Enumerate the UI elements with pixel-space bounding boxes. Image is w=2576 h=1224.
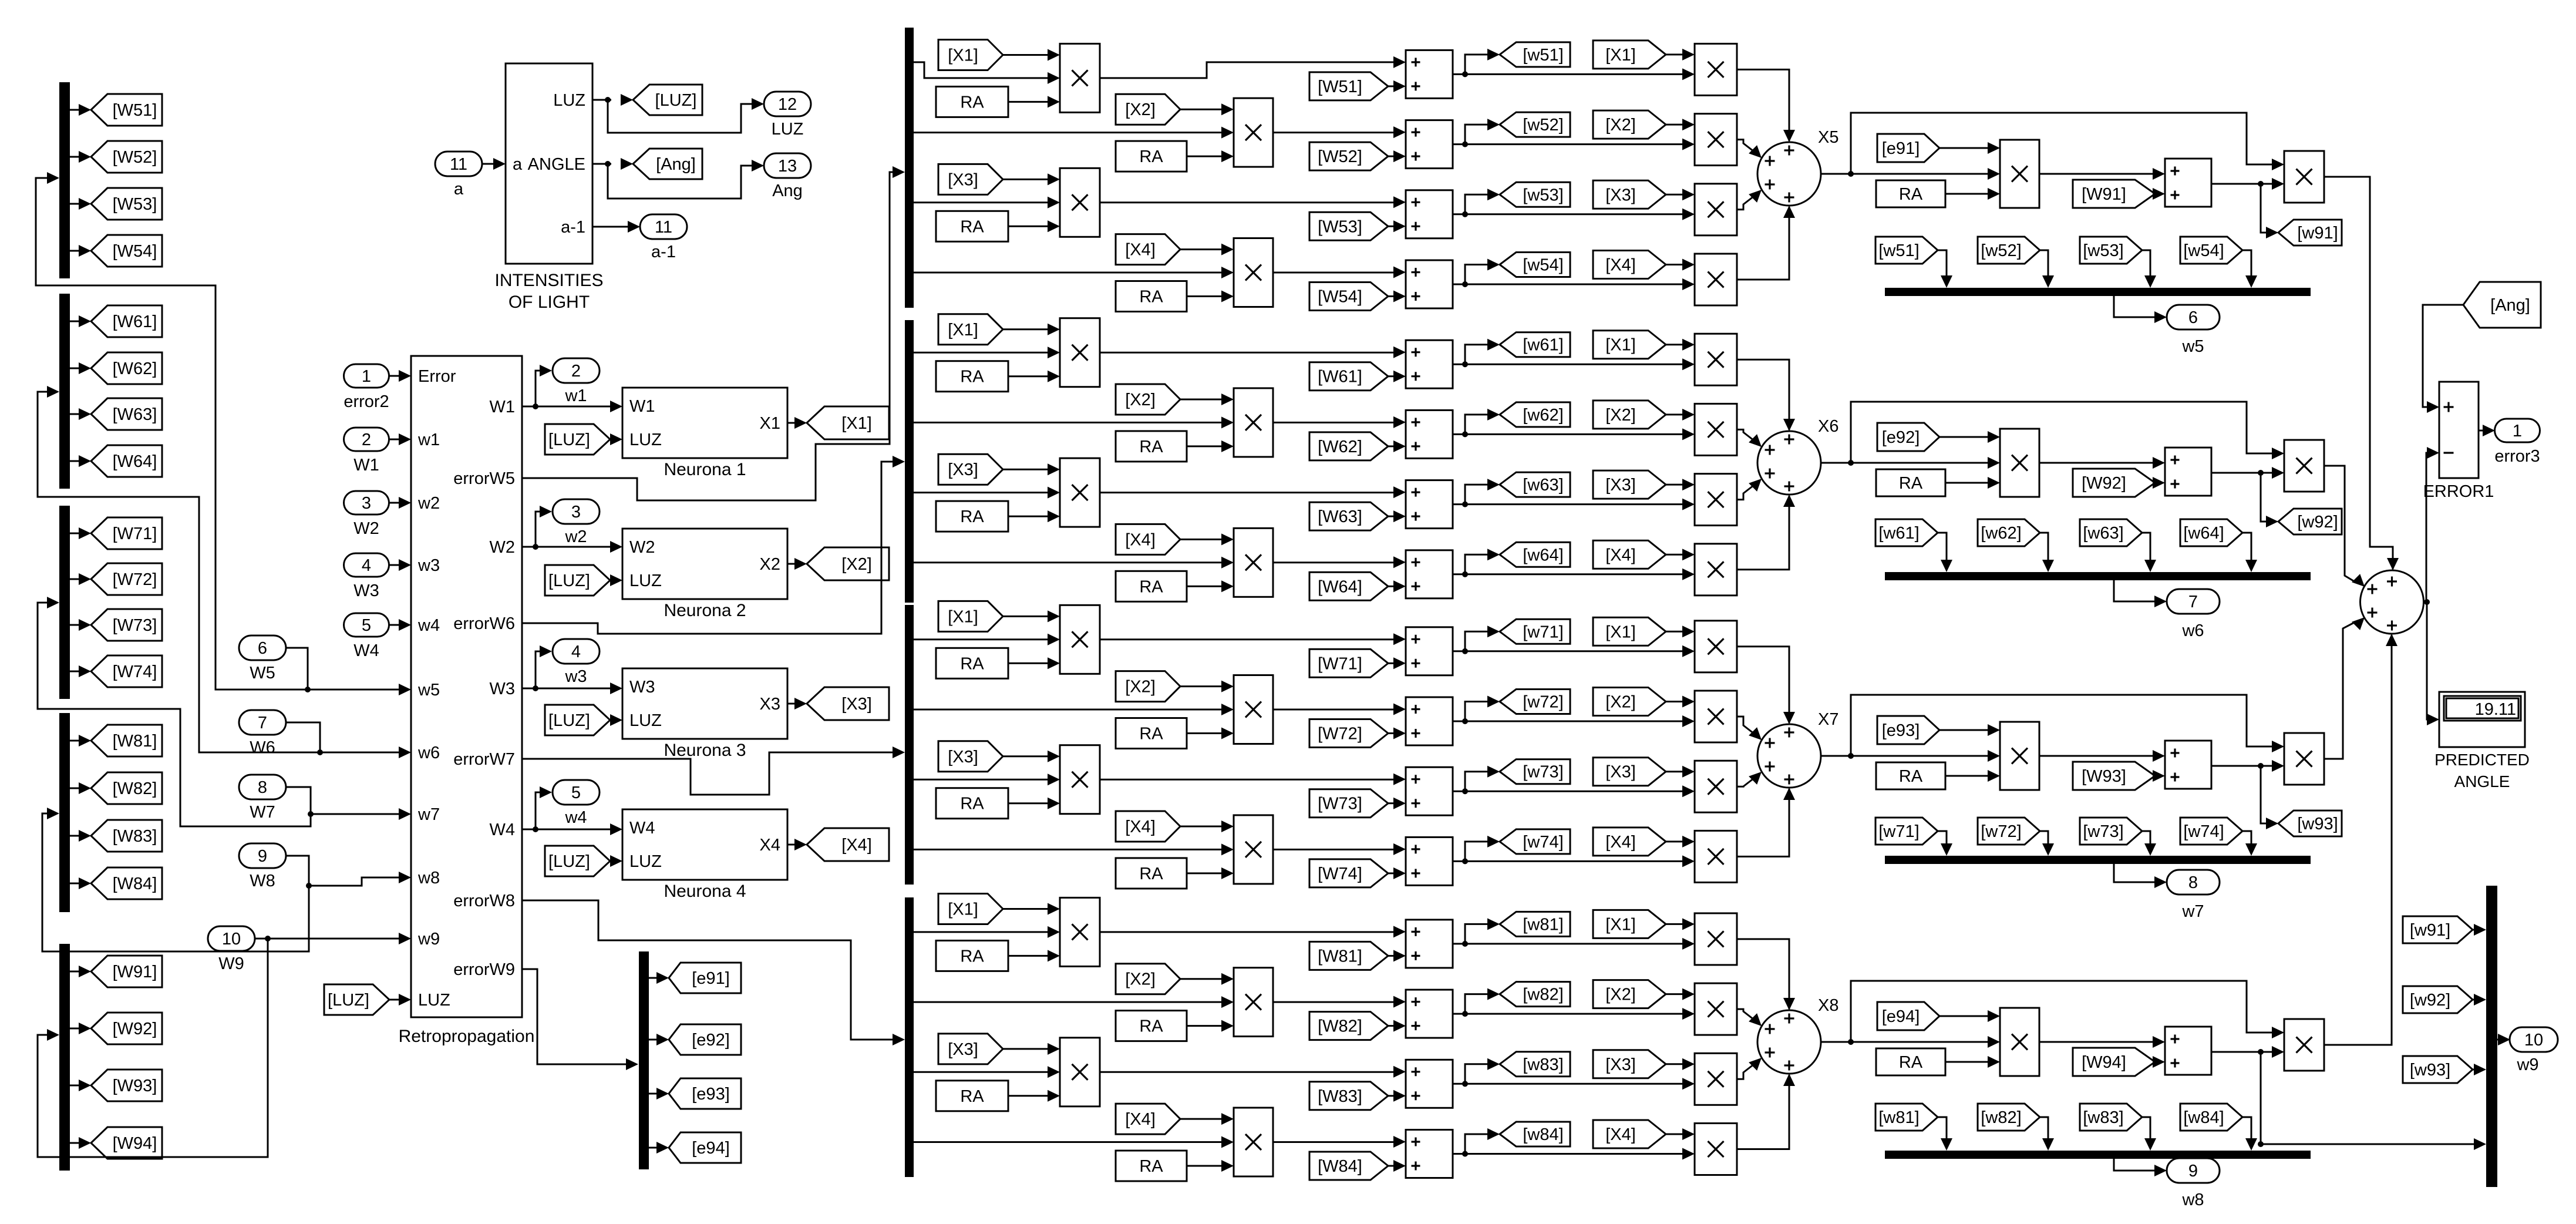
wire [X2] to product g8 r2b bbox=[1666, 988, 1695, 1000]
constant RA g8 r1 bbox=[936, 940, 1008, 971]
product block g7 r4a bbox=[1234, 815, 1273, 884]
wire bar to product g5 r1 bbox=[914, 62, 1060, 84]
wire [X3] to product g6 r3b bbox=[1666, 479, 1695, 490]
mux bar w6 bbox=[1885, 572, 2311, 580]
from tag [W62] bbox=[1309, 432, 1388, 460]
inport 6 W5 bbox=[239, 635, 286, 682]
svg-text:[X2]: [X2] bbox=[841, 555, 872, 574]
sum block g5 r2 bbox=[1406, 120, 1453, 169]
wire errorW5 to bar X5 bbox=[522, 166, 905, 500]
sum block g7 r1 bbox=[1406, 627, 1453, 675]
product block g8 r1a bbox=[1060, 897, 1100, 966]
wire X6 top line bbox=[1851, 402, 2284, 463]
wire RA to product g5 r2 bbox=[1187, 150, 1234, 162]
wire product to sum g5 r1 bbox=[1100, 56, 1406, 78]
wire RA to product e-row X8 bbox=[1945, 1056, 2000, 1068]
wire RA to product e-row X6 bbox=[1945, 477, 2000, 489]
svg-text:[w73]: [w73] bbox=[1523, 763, 1563, 782]
outport 12 LUZ bbox=[764, 92, 811, 139]
wire ERROR1 to outport 1 bbox=[2479, 425, 2495, 436]
svg-text:w3: w3 bbox=[564, 667, 587, 686]
from tag [w73] to mux bbox=[2080, 818, 2142, 845]
constant RA g8 r3 bbox=[936, 1081, 1008, 1111]
svg-text:8: 8 bbox=[2188, 873, 2198, 892]
wire product to sum g6 r3 bbox=[1100, 486, 1406, 498]
arrow sum line into product g8 r4b bbox=[1682, 1148, 1695, 1160]
wire product to sum g6 r4 bbox=[1273, 556, 1406, 568]
wire bar to product g8 r1 bbox=[914, 926, 1060, 938]
svg-text:[w74]: [w74] bbox=[2183, 822, 2224, 841]
goto tag [w62] bbox=[1500, 402, 1570, 427]
svg-text:[w82]: [w82] bbox=[1523, 986, 1563, 1004]
svg-text:RA: RA bbox=[1139, 147, 1163, 166]
inport 3 W2 bbox=[344, 491, 389, 538]
svg-text:[X3]: [X3] bbox=[1605, 763, 1636, 782]
wire [W53] to sum bbox=[1388, 220, 1406, 232]
from tag [X4] g5 r4 bbox=[1116, 234, 1180, 265]
arrow sum line into product g6 r3b bbox=[1682, 499, 1695, 510]
sum block g8 r3 bbox=[1406, 1060, 1453, 1108]
product block e-row X6 bbox=[2000, 429, 2039, 497]
outport 9 w8 bbox=[2167, 1158, 2220, 1209]
wire LUZ to Neurona 3 bbox=[610, 714, 622, 726]
subsystem Retropropagation bbox=[399, 356, 535, 1046]
from tag [X2] g7 r2 bbox=[1116, 671, 1180, 702]
svg-text:12: 12 bbox=[778, 95, 797, 114]
svg-text:[w62]: [w62] bbox=[1523, 406, 1563, 425]
from tag [X3] g6 r3 bbox=[938, 454, 1003, 485]
svg-text:RA: RA bbox=[1139, 1157, 1163, 1176]
wire [w71] drop bbox=[1938, 831, 1952, 856]
svg-text:Error: Error bbox=[418, 367, 456, 386]
svg-text:W3: W3 bbox=[353, 581, 379, 600]
sum block g7 r3 bbox=[1406, 767, 1453, 815]
wire W2 to Retropropagation bbox=[389, 497, 411, 509]
wire X5 product out to adder bbox=[2324, 177, 2399, 570]
sum block e-row X7 bbox=[2165, 741, 2211, 789]
svg-text:[X2]: [X2] bbox=[1605, 986, 1636, 1004]
wire [X4] to product g8 r4b bbox=[1666, 1128, 1695, 1140]
wire W4 retro to Neurona 4 bbox=[522, 823, 622, 835]
wire sum out g8 r1 bbox=[1453, 918, 1683, 947]
demux bar W9x bbox=[59, 944, 70, 1171]
from tag [X4] g8 r4 bbox=[1116, 1104, 1180, 1134]
svg-text:RA: RA bbox=[1139, 438, 1163, 456]
wire product to adder X6 r3 bbox=[1737, 479, 1762, 500]
svg-text:4: 4 bbox=[571, 643, 581, 661]
goto tag [w64] bbox=[1500, 542, 1570, 567]
outport 6 w5 bbox=[2167, 305, 2220, 356]
wire product to adder X8 r4 bbox=[1737, 1074, 1795, 1149]
svg-text:W9: W9 bbox=[218, 954, 244, 973]
svg-text:[w64]: [w64] bbox=[1523, 546, 1563, 564]
wire bar to product g8 r4 bbox=[914, 1136, 1234, 1148]
svg-text:Neurona 2: Neurona 2 bbox=[664, 601, 746, 620]
constant RA e-row X7 bbox=[1876, 762, 1945, 789]
svg-text:[e92]: [e92] bbox=[1882, 428, 1920, 447]
svg-text:[Ang]: [Ang] bbox=[656, 155, 696, 174]
svg-text:X2: X2 bbox=[760, 555, 780, 574]
constant RA g6 r3 bbox=[936, 501, 1008, 532]
wire w9 feedback to demux W9x bbox=[38, 939, 268, 1157]
wire product to sum e-row X6 bbox=[2039, 457, 2165, 469]
wire sum out g7 r3 bbox=[1453, 766, 1683, 795]
outport 4 w3 bbox=[553, 639, 600, 686]
svg-text:[w54]: [w54] bbox=[2183, 241, 2224, 260]
from tag [LUZ] retro bbox=[324, 984, 389, 1015]
wire w7 feedback to demux W7x bbox=[38, 597, 311, 826]
wire product to sum g6 r1 bbox=[1100, 347, 1406, 358]
wire RA to product g8 r4 bbox=[1187, 1160, 1234, 1172]
goto tag [W94] bbox=[91, 1127, 162, 1159]
goto tag [LUZ] top bbox=[633, 85, 702, 115]
product block g7 r2b bbox=[1695, 691, 1737, 742]
wire X4 out bbox=[787, 839, 807, 850]
wire X6 product out to adder bbox=[2324, 466, 2365, 587]
sum block e-row X6 bbox=[2165, 448, 2211, 496]
wire demux to goto [W54] bbox=[70, 245, 91, 257]
svg-text:ERROR1: ERROR1 bbox=[2423, 482, 2494, 501]
from tag [X1] g6 r1b bbox=[1593, 331, 1666, 359]
svg-text:RA: RA bbox=[960, 795, 984, 813]
wire W3 retro to Neurona 3 bbox=[522, 682, 622, 694]
wire ANGLE output bbox=[592, 158, 633, 170]
wire [W93] to sum bbox=[2153, 770, 2165, 782]
svg-text:8: 8 bbox=[258, 778, 267, 797]
svg-text:5: 5 bbox=[571, 784, 581, 802]
wire X8 top line bbox=[1851, 981, 2284, 1042]
inport 5 W4 bbox=[344, 613, 389, 660]
svg-text:RA: RA bbox=[1139, 865, 1163, 883]
svg-text:[W52]: [W52] bbox=[113, 148, 157, 167]
demux bar group X5 bbox=[905, 28, 914, 308]
from tag [W82] bbox=[1309, 1012, 1388, 1040]
wire [X2] to product g5 r2b bbox=[1666, 119, 1695, 130]
product block e-row X6b bbox=[2284, 440, 2324, 492]
svg-text:[W53]: [W53] bbox=[1318, 217, 1362, 236]
wire bar to product g6 r3 bbox=[914, 487, 1060, 499]
svg-text:[w63]: [w63] bbox=[2083, 524, 2123, 543]
goto tag [W62] bbox=[91, 352, 162, 384]
constant RA e-row X8 bbox=[1876, 1048, 1945, 1075]
wire [w81] drop bbox=[1938, 1117, 1952, 1151]
wire [X2] to product g7 r2 bbox=[1180, 681, 1234, 692]
product block g7 r2a bbox=[1234, 675, 1273, 744]
subsystem Neurona 1 bbox=[622, 388, 787, 479]
product block g7 r1b bbox=[1695, 621, 1737, 672]
inport 7 W6 bbox=[239, 710, 286, 757]
svg-text:[X1]: [X1] bbox=[1605, 623, 1636, 641]
svg-text:w1: w1 bbox=[564, 386, 587, 405]
from tag [X2] g6 r2b bbox=[1593, 401, 1666, 429]
svg-text:[X3]: [X3] bbox=[948, 1040, 978, 1059]
from tag [X1] g5 r1b bbox=[1593, 41, 1666, 69]
goto tag [W53] bbox=[91, 188, 162, 220]
goto tag [X3] bbox=[807, 687, 889, 720]
from tag [X1] g8 r1b bbox=[1593, 910, 1666, 938]
from tag [W71] bbox=[1309, 649, 1388, 677]
svg-text:w5: w5 bbox=[417, 681, 440, 700]
svg-text:[W62]: [W62] bbox=[113, 359, 157, 378]
wire bar to product g5 r2 bbox=[914, 127, 1234, 139]
wire [W84] to sum bbox=[1388, 1160, 1406, 1172]
svg-text:[w84]: [w84] bbox=[2183, 1108, 2224, 1127]
svg-text:[X2]: [X2] bbox=[1605, 693, 1636, 712]
wire sum out g6 r3 bbox=[1453, 479, 1683, 507]
demux bar group X7 bbox=[905, 605, 914, 885]
wire demux to goto [W94] bbox=[70, 1137, 91, 1149]
wire product to sum g8 r4 bbox=[1273, 1136, 1406, 1148]
svg-text:LUZ: LUZ bbox=[772, 120, 804, 139]
wire sum out g6 r1 bbox=[1453, 339, 1683, 368]
svg-text:7: 7 bbox=[258, 714, 267, 732]
mux bar w8 bbox=[1885, 1151, 2311, 1159]
from tag [e94] bbox=[1877, 1002, 1939, 1030]
wire RA to product e-row X7 bbox=[1945, 770, 2000, 782]
from tag [w53] to mux bbox=[2080, 237, 2142, 264]
constant RA g5 r1 bbox=[936, 86, 1008, 117]
wire product to adder X8 r2 bbox=[1737, 1009, 1762, 1026]
svg-text:[X3]: [X3] bbox=[841, 695, 872, 714]
wire RA to product g8 r1 bbox=[1008, 950, 1060, 961]
svg-text:a-1: a-1 bbox=[651, 243, 676, 261]
constant RA g6 r2 bbox=[1116, 431, 1187, 462]
svg-text:11: 11 bbox=[450, 155, 467, 174]
from tag [X2] g5 r2 bbox=[1116, 94, 1180, 125]
wire [W73] to sum bbox=[1388, 798, 1406, 809]
svg-text:[e91]: [e91] bbox=[1882, 139, 1920, 158]
subsystem Neurona 4 bbox=[622, 809, 787, 901]
wire mux w9 to outport 10 bbox=[2497, 1034, 2510, 1045]
svg-text:error3: error3 bbox=[2494, 447, 2540, 466]
wire bar to product g7 r1 bbox=[914, 634, 1060, 645]
svg-text:[LUZ]: [LUZ] bbox=[655, 91, 697, 110]
svg-text:[X4]: [X4] bbox=[1125, 1110, 1156, 1129]
svg-text:error2: error2 bbox=[344, 392, 389, 411]
wire product to adder X7 r4 bbox=[1737, 788, 1795, 856]
from tag [w92] right bbox=[2403, 986, 2473, 1013]
goto tag [e92] bbox=[669, 1024, 741, 1055]
from tag [W73] bbox=[1309, 789, 1388, 818]
sum block g8 r4 bbox=[1406, 1130, 1453, 1178]
goto tag [W72] bbox=[91, 563, 162, 595]
svg-text:w4: w4 bbox=[564, 808, 587, 827]
from tag [X1] g6 r1 bbox=[938, 314, 1003, 345]
svg-text:LUZ: LUZ bbox=[629, 852, 662, 871]
wire product to sum g8 r3 bbox=[1100, 1066, 1406, 1078]
wire [w52] drop bbox=[2040, 250, 2054, 288]
goto tag [W91] bbox=[91, 956, 162, 987]
svg-text:[w84]: [w84] bbox=[1523, 1125, 1563, 1144]
product block g8 r3b bbox=[1695, 1053, 1737, 1105]
svg-text:[W73]: [W73] bbox=[1318, 795, 1362, 813]
from tag [LUZ] Neurona 3 bbox=[545, 705, 610, 735]
product block g5 r2a bbox=[1234, 98, 1273, 167]
svg-text:X1: X1 bbox=[760, 414, 780, 433]
demux bar e9x bbox=[639, 951, 649, 1169]
demux bar W5x bbox=[59, 82, 70, 278]
from tag [X3] g7 r3b bbox=[1593, 758, 1666, 786]
wire sum out e-row X5 bbox=[2211, 178, 2284, 190]
wire [X4] to product g8 r4 bbox=[1180, 1113, 1234, 1125]
wire X7 top line bbox=[1851, 695, 2284, 756]
svg-text:w3: w3 bbox=[417, 556, 440, 575]
wire demux to goto [e93] bbox=[649, 1088, 669, 1099]
goto tag [w71] bbox=[1500, 619, 1570, 644]
sum block g8 r2 bbox=[1406, 990, 1453, 1038]
wire W1 to Retropropagation bbox=[389, 433, 411, 445]
svg-text:OF LIGHT: OF LIGHT bbox=[509, 292, 590, 312]
wire RA to product g7 r3 bbox=[1008, 798, 1060, 809]
wire W7 net bbox=[286, 787, 411, 820]
svg-text:[X1]: [X1] bbox=[1605, 915, 1636, 934]
svg-text:[W93]: [W93] bbox=[2082, 767, 2126, 786]
wire [w74] drop bbox=[2242, 831, 2257, 856]
wire X5 top line bbox=[1851, 113, 2284, 174]
svg-text:RA: RA bbox=[960, 507, 984, 526]
goto tag [w82] bbox=[1500, 982, 1570, 1007]
wire [X1] to product g7 r1b bbox=[1666, 626, 1695, 637]
svg-text:[w71]: [w71] bbox=[1523, 623, 1563, 641]
from tag [X3] g6 r3b bbox=[1593, 470, 1666, 499]
wire W2 retro to Neurona 2 bbox=[522, 541, 622, 553]
wire sum out g6 r4 bbox=[1453, 549, 1683, 577]
svg-text:[X2]: [X2] bbox=[1125, 678, 1156, 697]
wire RA to product g7 r1 bbox=[1008, 657, 1060, 669]
goto tag [W74] bbox=[91, 655, 162, 687]
from tag [w82] to mux bbox=[1978, 1104, 2040, 1131]
svg-text:[X1]: [X1] bbox=[948, 321, 978, 339]
svg-text:[X3]: [X3] bbox=[948, 170, 978, 189]
svg-text:w7: w7 bbox=[2181, 902, 2204, 921]
from tag [e91] bbox=[1877, 134, 1939, 162]
svg-text:RA: RA bbox=[1139, 1017, 1163, 1036]
arrow sum line into product g5 r3b bbox=[1682, 209, 1695, 220]
wire [W81] to sum bbox=[1388, 950, 1406, 961]
svg-text:[w74]: [w74] bbox=[1523, 833, 1563, 852]
wire [X4] to product g7 r4b bbox=[1666, 836, 1695, 848]
svg-text:[W61]: [W61] bbox=[1318, 368, 1362, 386]
goto tag [W81] bbox=[91, 725, 162, 756]
wire [w53] drop bbox=[2142, 250, 2156, 288]
from tag [w74] to mux bbox=[2180, 818, 2242, 845]
arrow sum line into product g8 r3b bbox=[1682, 1078, 1695, 1090]
wire [X3] to product g8 r3 bbox=[1003, 1043, 1060, 1055]
svg-text:W5: W5 bbox=[250, 664, 275, 682]
wire demux to goto [W71] bbox=[70, 527, 91, 539]
wire [w72] drop bbox=[2040, 831, 2054, 856]
product block g5 r1a bbox=[1060, 43, 1100, 112]
from tag [W51] bbox=[1309, 72, 1388, 100]
arrow sum line into product g7 r3b bbox=[1682, 785, 1695, 797]
svg-text:[w61]: [w61] bbox=[1523, 336, 1563, 355]
from tag [LUZ] Neurona 1 bbox=[545, 424, 610, 455]
goto tag [w74] bbox=[1500, 829, 1570, 854]
svg-text:5: 5 bbox=[362, 616, 371, 635]
outport 11 a-1 bbox=[640, 214, 687, 261]
from tag [W61] bbox=[1309, 362, 1388, 391]
wire [W54] to sum bbox=[1388, 291, 1406, 302]
wire RA to product g5 r4 bbox=[1187, 291, 1234, 302]
wire product to sum g7 r2 bbox=[1273, 704, 1406, 715]
product block g8 r2a bbox=[1234, 968, 1273, 1037]
from tag [W72] bbox=[1309, 719, 1388, 748]
goto tag [w73] bbox=[1500, 759, 1570, 784]
svg-text:w6: w6 bbox=[2181, 621, 2204, 640]
wire [X4] to product g6 r4 bbox=[1180, 533, 1234, 545]
wire [w63] drop bbox=[2142, 533, 2156, 572]
wire RA to product g6 r4 bbox=[1187, 580, 1234, 592]
outport 5 w4 bbox=[553, 780, 600, 827]
svg-text:LUZ: LUZ bbox=[553, 91, 585, 110]
mux bar w9 bbox=[2486, 886, 2497, 1187]
from tag [w72] to mux bbox=[1978, 818, 2040, 845]
svg-text:LUZ: LUZ bbox=[629, 431, 662, 449]
wire [W63] to sum bbox=[1388, 510, 1406, 522]
from tag [X4] g5 r4b bbox=[1593, 251, 1666, 279]
from tag [W74] bbox=[1309, 859, 1388, 887]
svg-text:errorW6: errorW6 bbox=[453, 614, 515, 633]
wire to goto [w92] bbox=[2261, 473, 2278, 527]
svg-text:3: 3 bbox=[571, 503, 581, 522]
wire product to sum e-row X5 bbox=[2039, 168, 2165, 180]
product block g7 r4b bbox=[1695, 830, 1737, 882]
goto tag [w51] bbox=[1500, 42, 1570, 67]
wire demux to goto [e92] bbox=[649, 1034, 669, 1045]
svg-text:[W94]: [W94] bbox=[2082, 1053, 2126, 1072]
svg-text:LUZ: LUZ bbox=[629, 711, 662, 730]
wire adder X8 out bbox=[1821, 1036, 2000, 1048]
svg-text:W1: W1 bbox=[490, 398, 516, 416]
svg-text:[w81]: [w81] bbox=[1878, 1108, 1919, 1127]
wire RA to product g7 r4 bbox=[1187, 867, 1234, 879]
svg-text:[W72]: [W72] bbox=[113, 570, 157, 589]
svg-text:[w62]: [w62] bbox=[1981, 524, 2021, 543]
product block g8 r4b bbox=[1695, 1124, 1737, 1175]
outport 3 w2 bbox=[553, 499, 600, 546]
product block g6 r2b bbox=[1695, 403, 1737, 455]
svg-text:W6: W6 bbox=[250, 738, 275, 757]
wire demux to goto [W84] bbox=[70, 877, 91, 889]
svg-text:[W74]: [W74] bbox=[1318, 865, 1362, 883]
sum block g5 r1 bbox=[1406, 50, 1453, 98]
wire RA to product g8 r2 bbox=[1187, 1020, 1234, 1032]
goto tag [e91] bbox=[669, 963, 741, 993]
svg-text:[e93]: [e93] bbox=[1882, 721, 1920, 740]
svg-text:w1: w1 bbox=[417, 431, 440, 449]
svg-text:[W64]: [W64] bbox=[113, 452, 157, 471]
wire X2 out bbox=[787, 558, 807, 570]
svg-text:[w91]: [w91] bbox=[2297, 224, 2338, 243]
wire Ang to outport 13 bbox=[608, 160, 764, 199]
arrow sum line into product g5 r1b bbox=[1682, 68, 1695, 80]
svg-text:Retropropagation: Retropropagation bbox=[399, 1027, 535, 1046]
sum block g6 r3 bbox=[1406, 480, 1453, 529]
svg-text:RA: RA bbox=[960, 217, 984, 236]
wire sum out e-row X8 bbox=[2211, 1046, 2284, 1058]
svg-text:[w71]: [w71] bbox=[1878, 822, 1919, 841]
wire [X3] to product g8 r3b bbox=[1666, 1058, 1695, 1070]
svg-text:X8: X8 bbox=[1818, 996, 1838, 1015]
wire [X1] to product g6 r1b bbox=[1666, 339, 1695, 351]
svg-text:[w52]: [w52] bbox=[1981, 241, 2021, 260]
svg-text:[X4]: [X4] bbox=[1605, 833, 1636, 852]
svg-text:[w53]: [w53] bbox=[2083, 241, 2123, 260]
svg-text:w7: w7 bbox=[417, 805, 440, 824]
svg-text:11: 11 bbox=[655, 218, 672, 237]
svg-text:[W94]: [W94] bbox=[113, 1134, 157, 1153]
svg-text:[e94]: [e94] bbox=[1882, 1007, 1920, 1026]
